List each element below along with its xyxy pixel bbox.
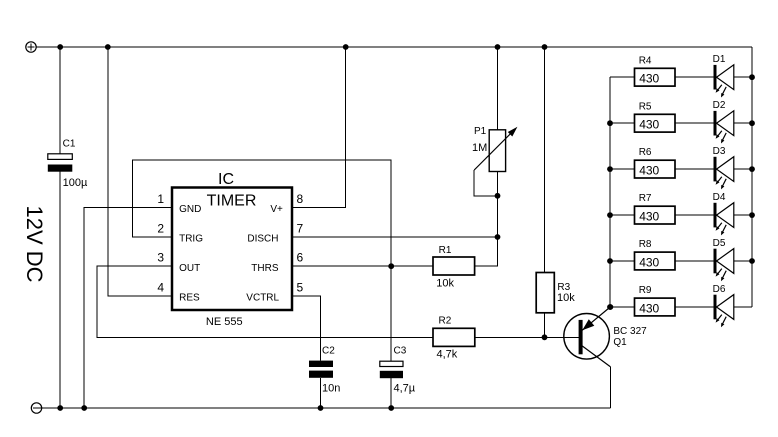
resistor R3 bbox=[536, 273, 554, 313]
svg-text:D4: D4 bbox=[713, 192, 726, 203]
resistor R7 bbox=[635, 206, 676, 224]
junction right bus row 3 bbox=[749, 166, 755, 172]
svg-text:D2: D2 bbox=[713, 100, 726, 111]
wire RES to rail vertical bbox=[108, 47, 172, 296]
wire DISCH pin7 bbox=[292, 236, 498, 238]
resistor R1 bbox=[433, 257, 475, 275]
svg-text:4,7k: 4,7k bbox=[437, 348, 458, 360]
svg-text:430: 430 bbox=[639, 301, 659, 315]
wire P1 branch from rail bbox=[497, 47, 499, 130]
svg-text:430: 430 bbox=[639, 255, 659, 269]
wire R8 to D5 bbox=[675, 260, 714, 262]
wire V+ pin8 to rail bbox=[292, 47, 346, 208]
svg-text:NE 555: NE 555 bbox=[206, 316, 243, 328]
svg-text:D3: D3 bbox=[713, 146, 726, 157]
IC U1 NE555 box bbox=[172, 188, 292, 311]
wire R6 left lead bbox=[610, 168, 635, 170]
wire R9 to D6 bbox=[675, 306, 714, 308]
wire LED ladder left bus bbox=[609, 77, 611, 307]
svg-text:D6: D6 bbox=[713, 284, 726, 295]
wire P1 bottom to DISCH node and R1 bbox=[475, 172, 498, 267]
LED D1 bbox=[714, 65, 734, 98]
svg-text:IC: IC bbox=[218, 171, 234, 188]
wire VCTRL pin5 to C2 bbox=[292, 296, 321, 361]
svg-text:R2: R2 bbox=[439, 316, 452, 327]
wire D5 to right bus bbox=[734, 260, 752, 262]
wire R3 bottom to base line bbox=[544, 313, 546, 338]
LED D5 bbox=[714, 249, 734, 282]
svg-text:DISCH: DISCH bbox=[247, 234, 278, 245]
potentiometer P1 bbox=[474, 127, 517, 172]
svg-text:R5: R5 bbox=[639, 101, 652, 112]
svg-text:10n: 10n bbox=[322, 383, 340, 395]
svg-text:R1: R1 bbox=[439, 245, 452, 256]
svg-text:OUT: OUT bbox=[179, 263, 200, 274]
resistor R6 bbox=[635, 160, 676, 178]
svg-text:P1: P1 bbox=[474, 126, 487, 137]
wire R2 to base bbox=[475, 336, 579, 338]
wire C3 to ground bbox=[390, 378, 392, 408]
wire THRS node down to C3 bbox=[390, 266, 392, 361]
svg-text:R9: R9 bbox=[639, 285, 652, 296]
junction top rail R3 bbox=[542, 44, 548, 50]
wire P1 wiper to bottom bbox=[474, 170, 497, 196]
svg-text:C3: C3 bbox=[394, 346, 407, 357]
wire R5 left lead bbox=[610, 122, 635, 124]
junction left bus row 5 bbox=[607, 120, 613, 126]
LED D3 bbox=[714, 157, 734, 190]
junction ground C1 bbox=[57, 405, 63, 411]
LED D2 bbox=[714, 111, 734, 144]
junction right bus row 4 bbox=[749, 212, 755, 218]
svg-text:R4: R4 bbox=[639, 55, 652, 66]
svg-text:R6: R6 bbox=[639, 147, 652, 158]
wire R6 to D3 bbox=[675, 168, 714, 170]
wire top +12V rail bbox=[36, 46, 752, 48]
wire collector to ground bbox=[609, 367, 611, 408]
wire THRS pin6 to R1 bbox=[292, 265, 433, 267]
junction ground C2 bbox=[318, 405, 324, 411]
transistor Q1 bbox=[564, 307, 610, 367]
svg-text:3: 3 bbox=[157, 251, 164, 265]
wire D2 to right bus bbox=[734, 122, 752, 124]
svg-text:430: 430 bbox=[639, 163, 659, 177]
svg-text:TIMER: TIMER bbox=[207, 193, 257, 210]
svg-text:VCTRL: VCTRL bbox=[246, 293, 279, 304]
junction top rail C1 bbox=[57, 44, 63, 50]
LED D6 bbox=[714, 295, 734, 328]
junction left bus row 7 bbox=[607, 212, 613, 218]
svg-text:C1: C1 bbox=[63, 139, 76, 150]
svg-text:12V DC: 12V DC bbox=[22, 205, 47, 282]
svg-text:1: 1 bbox=[157, 192, 164, 206]
svg-text:RES: RES bbox=[179, 293, 200, 304]
resistor R2 bbox=[433, 328, 475, 346]
capacitor C3 bbox=[380, 361, 403, 378]
wire C1 branch upper bbox=[59, 47, 61, 154]
svg-text:430: 430 bbox=[639, 72, 659, 86]
svg-text:D1: D1 bbox=[713, 54, 726, 65]
junction left bus row 6 bbox=[607, 166, 613, 172]
junction right bus row 1 bbox=[749, 74, 755, 80]
wire OUT pin3 down bbox=[97, 266, 433, 337]
svg-text:2: 2 bbox=[157, 222, 164, 236]
wire D1 to right bus bbox=[734, 76, 752, 78]
wire D4 to right bus bbox=[734, 214, 752, 216]
svg-text:8: 8 bbox=[297, 192, 304, 206]
wire R8 left lead bbox=[610, 260, 635, 262]
svg-text:5: 5 bbox=[297, 281, 304, 295]
plus terminal bbox=[26, 42, 36, 52]
svg-text:V+: V+ bbox=[270, 204, 283, 215]
svg-text:D5: D5 bbox=[713, 238, 726, 249]
svg-text:4,7µ: 4,7µ bbox=[394, 383, 416, 395]
wire C2 to ground bbox=[320, 378, 322, 408]
wire R4 to D1 bbox=[675, 76, 714, 78]
svg-text:TRIG: TRIG bbox=[179, 234, 203, 245]
wire R7 left lead bbox=[610, 214, 635, 216]
svg-text:R7: R7 bbox=[639, 193, 652, 204]
svg-text:430: 430 bbox=[639, 118, 659, 132]
svg-text:BC 327: BC 327 bbox=[613, 326, 647, 337]
wire R7 to D4 bbox=[675, 214, 714, 216]
wire R9 left lead bbox=[610, 306, 635, 308]
svg-text:R8: R8 bbox=[639, 239, 652, 250]
junction THRS node bbox=[388, 263, 394, 269]
svg-text:100µ: 100µ bbox=[63, 177, 88, 189]
junction top rail V+ bbox=[343, 44, 349, 50]
svg-text:C2: C2 bbox=[322, 346, 335, 357]
junction top rail P1 bbox=[495, 44, 501, 50]
junction DISCH node bbox=[495, 234, 501, 240]
resistor R4 bbox=[635, 68, 676, 86]
wire R4 left lead bbox=[610, 76, 635, 78]
wire R5 to D2 bbox=[675, 122, 714, 124]
LED D4 bbox=[714, 203, 734, 236]
svg-text:THRS: THRS bbox=[251, 263, 279, 274]
junction ground GND pin bbox=[81, 405, 87, 411]
junction ground C3 bbox=[388, 405, 394, 411]
svg-text:GND: GND bbox=[179, 204, 201, 215]
svg-text:1M: 1M bbox=[472, 142, 487, 154]
wire bottom ground rail bbox=[42, 407, 611, 409]
junction right bus row 5 bbox=[749, 258, 755, 264]
resistor R8 bbox=[635, 252, 676, 270]
svg-text:10k: 10k bbox=[436, 277, 454, 289]
svg-text:7: 7 bbox=[297, 222, 304, 236]
junction P1 wiper node bbox=[495, 193, 501, 199]
capacitor C2 bbox=[309, 361, 333, 378]
svg-text:430: 430 bbox=[639, 209, 659, 223]
junction left bus row 8 bbox=[607, 258, 613, 264]
minus terminal bbox=[31, 403, 41, 413]
wire TRIG loop bbox=[133, 160, 392, 266]
wire C1 branch lower bbox=[59, 172, 61, 409]
wire R3 branch from rail bbox=[544, 47, 546, 273]
capacitor C1 bbox=[48, 154, 73, 172]
junction emitter bus node bbox=[608, 304, 614, 310]
resistor R9 bbox=[635, 298, 676, 316]
wire D6 to right bus bbox=[734, 306, 752, 308]
junction left bus row 9 bbox=[607, 304, 613, 310]
junction top rail RES bbox=[105, 44, 111, 50]
svg-text:Q1: Q1 bbox=[613, 337, 627, 348]
wire right LED bus bbox=[751, 47, 753, 307]
wire D3 to right bus bbox=[734, 168, 752, 170]
svg-text:4: 4 bbox=[157, 281, 164, 295]
svg-text:6: 6 bbox=[297, 251, 304, 265]
svg-text:10k: 10k bbox=[557, 292, 575, 304]
wire GND pin1 to ground bbox=[84, 208, 172, 409]
junction right bus row 2 bbox=[749, 120, 755, 126]
resistor R5 bbox=[635, 114, 676, 132]
junction R3 base node bbox=[542, 334, 548, 340]
